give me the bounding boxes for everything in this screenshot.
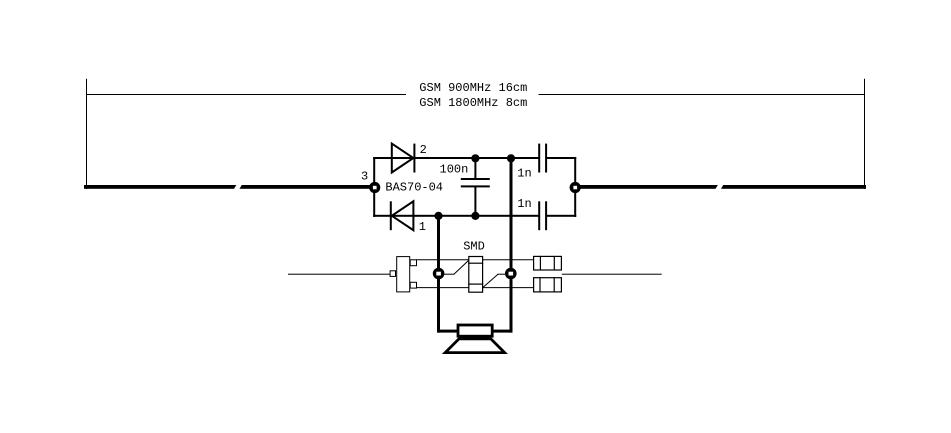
pin label 1 <box>419 220 426 234</box>
wire top rail <box>373 157 576 159</box>
dimension extension line left <box>86 79 88 189</box>
break mark on left arm <box>233 181 243 194</box>
right component lower body <box>534 277 562 292</box>
diagonal lead right <box>483 274 507 288</box>
svg-text:BAS70-04: BAS70-04 <box>385 181 443 195</box>
dimension extension line right <box>864 79 866 189</box>
svg-text:3: 3 <box>361 170 368 184</box>
diode D1 pin1 (bottom, BAS70-04) <box>391 201 414 230</box>
speaker LS1 cone <box>445 339 504 353</box>
speaker LS1 frame <box>458 325 492 336</box>
svg-text:GSM 1800MHz 8cm: GSM 1800MHz 8cm <box>419 96 527 110</box>
SMD axis lead wire right <box>562 274 662 275</box>
capacitor C3 1n bottom plates <box>538 201 547 230</box>
right component upper body <box>534 256 562 271</box>
wire left vertical of diode box <box>373 157 375 217</box>
svg-text:1n: 1n <box>517 167 531 181</box>
connector body tall rectangle <box>397 257 410 292</box>
diagonal lead left <box>443 260 469 274</box>
SMD chip body <box>468 257 483 293</box>
dimension label GSM 900MHz 16cm <box>419 81 527 95</box>
solder pad right <box>505 268 517 280</box>
diode D2 pin2 (top, BAS70-04) <box>392 144 415 173</box>
dimension label GSM 1800MHz 8cm <box>419 96 527 110</box>
antenna right arm wire <box>575 185 866 189</box>
junction dot bottom rail at 100n <box>471 212 479 220</box>
tube box outline <box>417 260 534 288</box>
solder pad left <box>433 268 445 280</box>
svg-text:1: 1 <box>419 220 426 234</box>
pin label 2 <box>420 143 427 157</box>
junction dot top rail at 100n <box>471 154 479 162</box>
break mark on right arm <box>714 181 724 194</box>
value label 100n <box>440 163 469 177</box>
svg-text:2: 2 <box>420 143 427 157</box>
SMD axis lead wire left <box>288 274 390 275</box>
wire right vertical of diode box <box>574 157 576 217</box>
right terminal node circle <box>570 182 581 193</box>
value label 1n top <box>517 167 531 181</box>
pin label 3 <box>361 170 368 184</box>
node 3 terminal circle <box>369 182 380 193</box>
antenna left arm wire <box>84 185 375 189</box>
svg-text:GSM 900MHz 16cm: GSM 900MHz 16cm <box>419 81 527 95</box>
capacitor C2 1n top plates <box>538 144 547 173</box>
wire bottom rail <box>373 215 576 217</box>
svg-text:100n: 100n <box>440 163 469 177</box>
svg-text:1n: 1n <box>517 197 531 211</box>
connector small square <box>390 271 395 277</box>
label SMD <box>463 240 485 254</box>
connector tab bottom <box>410 282 416 288</box>
thick wire from top rail down to right pad and speaker <box>493 158 513 333</box>
capacitor C1 100n plates <box>461 178 490 187</box>
junction dot top rail at right wire <box>507 154 515 162</box>
dimension line right segment <box>539 94 866 95</box>
svg-text:SMD: SMD <box>463 240 485 254</box>
value label 1n bottom <box>517 197 531 211</box>
connector tab top <box>410 260 416 266</box>
capacitor C1 100n wires <box>474 158 476 216</box>
part label BAS70-04 <box>385 181 443 195</box>
junction dot bottom rail at left wire <box>434 212 442 220</box>
dimension line left segment <box>86 94 406 95</box>
thick wire from bottom rail down to left pad and speaker <box>437 216 458 333</box>
